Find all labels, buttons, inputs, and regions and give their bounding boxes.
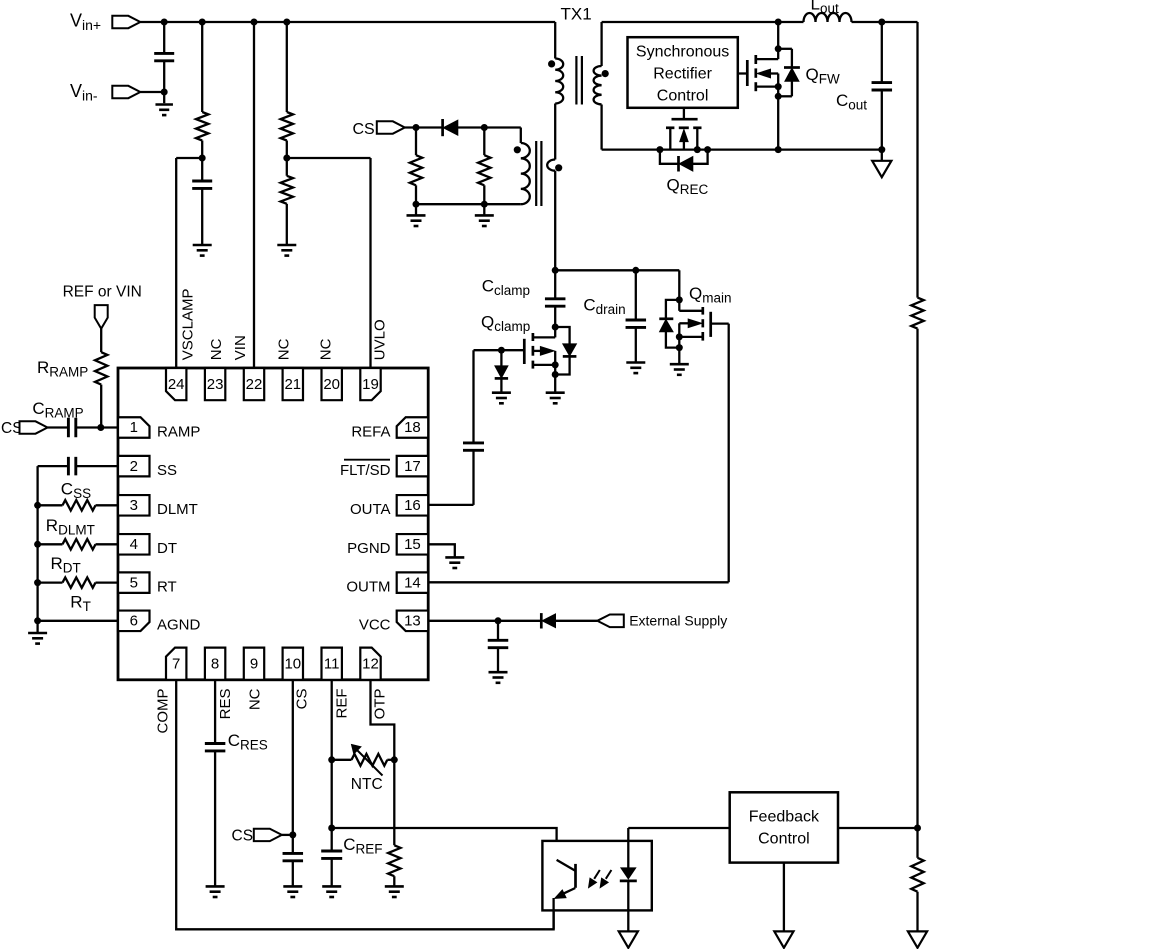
svg-text:RES: RES: [217, 689, 234, 720]
svg-text:Cout: Cout: [836, 91, 867, 113]
svg-text:4: 4: [130, 536, 138, 553]
svg-text:24: 24: [168, 376, 185, 393]
svg-text:CRAMP: CRAMP: [32, 399, 83, 421]
svg-text:CS: CS: [294, 689, 311, 710]
svg-text:UVLO: UVLO: [372, 319, 389, 360]
svg-text:23: 23: [207, 376, 224, 393]
svg-text:Cclamp: Cclamp: [482, 277, 530, 299]
svg-text:SS: SS: [157, 462, 177, 479]
svg-text:CS: CS: [232, 828, 254, 845]
svg-text:NC: NC: [247, 688, 264, 710]
svg-text:2: 2: [130, 458, 138, 475]
svg-text:DLMT: DLMT: [157, 501, 198, 518]
svg-text:REFA: REFA: [351, 423, 390, 440]
svg-text:20: 20: [323, 376, 340, 393]
svg-text:OUTA: OUTA: [350, 501, 391, 518]
svg-text:CREF: CREF: [343, 835, 382, 857]
svg-text:Rectifier: Rectifier: [653, 66, 712, 83]
svg-text:10: 10: [284, 655, 301, 672]
svg-text:6: 6: [130, 613, 138, 630]
svg-text:RDLMT: RDLMT: [46, 516, 95, 538]
svg-text:VIN: VIN: [232, 335, 249, 360]
svg-text:Vin+: Vin+: [70, 11, 101, 34]
svg-text:15: 15: [404, 536, 421, 553]
svg-text:Synchronous: Synchronous: [636, 44, 729, 61]
svg-text:Feedback: Feedback: [749, 809, 820, 826]
svg-text:REF or VIN: REF or VIN: [63, 284, 142, 301]
svg-text:16: 16: [404, 497, 421, 514]
svg-text:9: 9: [250, 655, 258, 672]
svg-text:21: 21: [284, 376, 301, 393]
svg-text:3: 3: [130, 497, 138, 514]
svg-text:7: 7: [172, 655, 180, 672]
svg-text:RDT: RDT: [51, 554, 81, 576]
svg-text:RAMP: RAMP: [157, 423, 200, 440]
svg-text:17: 17: [404, 458, 421, 475]
svg-text:DT: DT: [157, 540, 177, 557]
svg-text:TX1: TX1: [561, 5, 592, 24]
svg-text:12: 12: [362, 655, 379, 672]
svg-text:RT: RT: [157, 578, 177, 595]
svg-text:Control: Control: [657, 88, 709, 105]
svg-text:FLT/SD: FLT/SD: [340, 462, 391, 479]
svg-text:External Supply: External Supply: [629, 613, 727, 629]
svg-text:11: 11: [324, 655, 340, 672]
svg-text:NC: NC: [318, 338, 335, 360]
svg-text:VSCLAMP: VSCLAMP: [180, 288, 197, 360]
svg-text:NC: NC: [275, 338, 292, 360]
svg-text:NC: NC: [208, 338, 225, 360]
svg-text:CS: CS: [353, 121, 375, 138]
svg-text:Qmain: Qmain: [689, 284, 732, 306]
svg-text:OUTM: OUTM: [346, 578, 390, 595]
svg-text:1: 1: [130, 419, 138, 436]
svg-text:Cdrain: Cdrain: [583, 296, 625, 318]
svg-text:NTC: NTC: [351, 776, 383, 793]
svg-text:13: 13: [404, 613, 421, 630]
svg-text:14: 14: [404, 574, 421, 591]
svg-text:Lout: Lout: [811, 0, 839, 16]
svg-text:QREC: QREC: [667, 176, 709, 198]
svg-text:OTP: OTP: [371, 689, 388, 720]
svg-text:Qclamp: Qclamp: [481, 313, 530, 335]
svg-text:COMP: COMP: [154, 689, 171, 734]
svg-text:REF: REF: [333, 689, 350, 719]
svg-text:QFW: QFW: [806, 65, 840, 87]
svg-text:VCC: VCC: [359, 617, 391, 634]
svg-text:PGND: PGND: [347, 540, 391, 557]
svg-text:Control: Control: [758, 831, 810, 848]
svg-text:Vin-: Vin-: [70, 81, 98, 104]
svg-text:CRES: CRES: [228, 731, 268, 753]
svg-text:19: 19: [362, 376, 379, 393]
svg-text:AGND: AGND: [157, 617, 201, 634]
svg-text:RRAMP: RRAMP: [37, 358, 88, 380]
svg-text:5: 5: [130, 574, 138, 591]
svg-text:RT: RT: [70, 593, 91, 615]
svg-text:22: 22: [246, 376, 263, 393]
svg-text:18: 18: [404, 419, 421, 436]
svg-text:8: 8: [211, 655, 219, 672]
